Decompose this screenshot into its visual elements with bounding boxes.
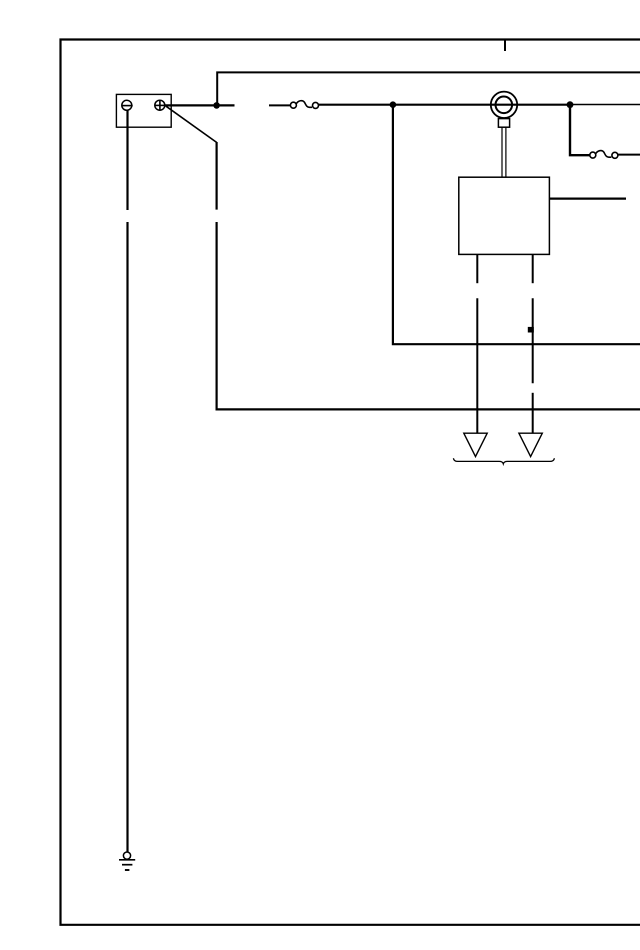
junction: node at x=393	[390, 101, 397, 108]
wire: control unit left bottom lead to arrow	[476, 298, 478, 433]
fuse F1 (fusible link symbol)	[290, 102, 296, 108]
wire: branch vertical upper segment (interrupted)	[216, 142, 218, 210]
wire: drop from junction x=393 to mid bus	[393, 105, 640, 345]
fuse F2 (fusible link symbol)	[590, 152, 596, 158]
wire: battery positive diagonal branch	[166, 106, 217, 142]
wire: feed continuing to right edge after x=570	[570, 104, 640, 106]
wire: battery negative lead upper segment	[126, 110, 128, 210]
junction: splice square on right lead	[528, 327, 534, 333]
ground G1: terminal ring	[123, 852, 130, 859]
wire: main feed from F1 through coil to junction x=570	[318, 104, 570, 106]
ground G1: chassis ground strokes	[119, 859, 135, 861]
wire: control unit left bottom lead upper segment	[476, 254, 478, 283]
wire: lead into fuse F1	[269, 104, 291, 106]
wire: branch vertical lower segment to bottom bus	[217, 222, 640, 409]
wire: control unit right bottom lead middle segment	[532, 298, 534, 383]
wire: upper bus line from corner above junction to right edge	[217, 72, 640, 104]
wire: battery positive feed to interrupted stub	[165, 104, 235, 106]
control unit U1: box	[459, 177, 550, 254]
wire: battery negative lead lower segment to ground	[126, 222, 128, 852]
wire: F2 output to right edge	[618, 154, 640, 156]
wire: drop from junction x=570 to fuse F2	[570, 105, 590, 156]
junction: node at x=570	[567, 101, 574, 108]
wire: double lead from coil base to control unit	[501, 127, 503, 177]
ignition coil T1: base connector block	[498, 119, 509, 128]
node: grouping brace under arrows	[453, 458, 554, 464]
wire: control unit right bottom lead upper segment	[532, 254, 534, 283]
ignition coil T1: ring symbol on feed wire	[491, 92, 517, 118]
node: off-page arrow right	[519, 433, 542, 456]
wire: control unit right bottom lead lower segment to arrow	[532, 393, 534, 434]
wire: output lead from right side of control unit	[549, 198, 626, 200]
node: page tick mark on top border	[504, 40, 506, 51]
battery B1: positive terminal	[155, 100, 165, 110]
battery B1: negative terminal	[122, 100, 132, 110]
junction: node at x=216 on positive feed	[213, 102, 220, 109]
node: off-page arrow left	[464, 433, 487, 456]
battery B1: case	[116, 94, 171, 127]
